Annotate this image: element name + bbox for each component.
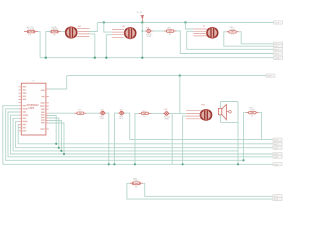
- node tap for D3: [142, 30, 144, 32]
- wire U1 right nested drop 2: [49, 118, 59, 148]
- node junction on rail x=103.8: [103, 21, 105, 23]
- wire mid-rail drop x=179.8: [179, 76, 181, 114]
- wire T2 pin2 up to rail: [104, 23, 112, 33]
- wire bus L5: [8, 112, 273, 157]
- node junction on rail x=142.3: [141, 21, 143, 23]
- fuse F4 top-right: [226, 27, 238, 36]
- wire speaker loop bottom: [221, 121, 239, 123]
- wire F4 right down to flag row y=43.8: [239, 32, 274, 44]
- net flag y53.5: [274, 52, 283, 56]
- svg-text:5V_IN: 5V_IN: [136, 12, 142, 14]
- svg-text:600R: 600R: [230, 29, 235, 31]
- wire D6 to T4 pin2: [170, 112, 186, 114]
- wire U1 right nested drop 4: [49, 123, 64, 154]
- wire U1 right nested drop 1: [49, 116, 56, 144]
- net flag bottom 2: [273, 198, 282, 202]
- wire bus L3: [13, 118, 238, 151]
- fuse F7 bottom: [130, 178, 143, 188]
- wire T3 pin1 up to rail: [186, 23, 194, 30]
- power flag symbol: [141, 16, 144, 22]
- svg-text:VO1: VO1: [275, 23, 280, 25]
- net flag L2: [273, 146, 282, 150]
- wire R1 to D6: [151, 112, 163, 114]
- node junction on rail x=185.5: [184, 21, 186, 23]
- net flag L7: [273, 163, 282, 167]
- wire junction down x=172.2: [171, 113, 173, 164]
- node junction y75.8: [179, 74, 181, 76]
- wire bus L1: [18, 125, 273, 144]
- wire L0 to right flag: [130, 139, 273, 141]
- wire D5 right down to L0: [125, 113, 130, 140]
- diode D6: [163, 109, 171, 121]
- transformer T1: [66, 25, 90, 38]
- fuse F5: [74, 109, 86, 114]
- wire power junction down x=142.3: [141, 23, 143, 58]
- fuse F3: [164, 28, 176, 36]
- svg-text:GND: GND: [275, 58, 280, 60]
- wire U1 right nested drop 3: [49, 121, 62, 151]
- svg-text:600R: 600R: [250, 109, 255, 111]
- wire speaker loop right down to bus: [237, 102, 239, 165]
- net flag L5: [273, 155, 282, 159]
- wire T1 pin2 up to rail: [90, 23, 98, 32]
- fuse R1 mid: [139, 110, 151, 118]
- wire F7 right loop to flag: [143, 183, 273, 196]
- svg-text:SW1: SW1: [267, 76, 273, 78]
- diode D4: [99, 110, 106, 120]
- wire bus L7: [3, 106, 273, 165]
- svg-text:SMB: SMB: [164, 118, 169, 120]
- wire D3 to F3: [153, 30, 164, 32]
- wire W1 ground rail y=57.7: [40, 57, 273, 59]
- wire T2 pin3 down to W1: [106, 35, 112, 58]
- svg-text:2A250: 2A250: [52, 28, 59, 31]
- net flag y49.3: [274, 48, 283, 52]
- net flag bottom 1: [273, 195, 282, 199]
- net flag L0: [273, 138, 282, 142]
- wire F2 left down to W1: [46, 32, 51, 58]
- node bus junctions: [55, 143, 57, 145]
- net flag y43.8: [274, 42, 283, 46]
- wire F3 right down to flag row y=53.5: [176, 31, 273, 54]
- wire F1 right to W1 corner: [38, 32, 40, 58]
- wire D5 left down to bus: [114, 113, 118, 164]
- net flag L1: [273, 142, 282, 146]
- net flag L4: [273, 152, 282, 156]
- transformer T2: [112, 25, 136, 38]
- svg-text:F3P6: F3P6: [29, 107, 35, 110]
- wire F6 left down to bus L6: [244, 113, 247, 161]
- speaker LS1: [218, 102, 231, 123]
- diode D3: [142, 28, 153, 38]
- wire mid rail y=75.8: [67, 75, 267, 77]
- net flag y75.8: [266, 74, 275, 78]
- wire row A from U1: [49, 112, 75, 114]
- wire F5 to D4: [86, 112, 99, 114]
- wire T1 pin3 down to W1: [90, 34, 95, 58]
- wire F2 right to T1: [61, 31, 66, 33]
- diode D5: [118, 110, 125, 120]
- svg-text:F-0.5A: F-0.5A: [28, 28, 35, 31]
- net flag y46.2: [274, 45, 283, 49]
- wire F6 right down to L0: [259, 113, 262, 140]
- wire speaker loop top: [221, 101, 239, 103]
- node W1 junctions: [45, 57, 47, 59]
- wire F2m left down to bus: [135, 113, 139, 164]
- fuse F6 right: [246, 107, 258, 117]
- wire D4 right down to bus: [106, 113, 109, 164]
- transformer T4: [186, 105, 212, 121]
- fuse F2 top: [48, 27, 61, 37]
- wire F4 left down to flag row y=46.2: [224, 32, 274, 46]
- svg-text:KEY: KEY: [134, 180, 139, 182]
- wire T3 pin2 down to flag row y=49.3: [187, 31, 274, 49]
- fuse F1: [24, 26, 38, 37]
- net flag y57.7: [274, 56, 283, 60]
- op-amp U1 (MCU): [18, 81, 48, 135]
- transformer T3: [193, 26, 217, 38]
- wire F7 left loop to flag: [127, 183, 273, 199]
- net flag rail right: [274, 21, 283, 25]
- svg-text:SMB: SMB: [147, 36, 152, 38]
- wire bus L6: [6, 109, 244, 160]
- wire IC pin1R up to mid rail: [49, 76, 67, 89]
- wire T4 pin3 down to bus: [183, 116, 186, 164]
- wire bus L2: [16, 121, 273, 147]
- wire: +5V rail y=22.5: [97, 22, 273, 24]
- wire bus L4: [11, 115, 273, 154]
